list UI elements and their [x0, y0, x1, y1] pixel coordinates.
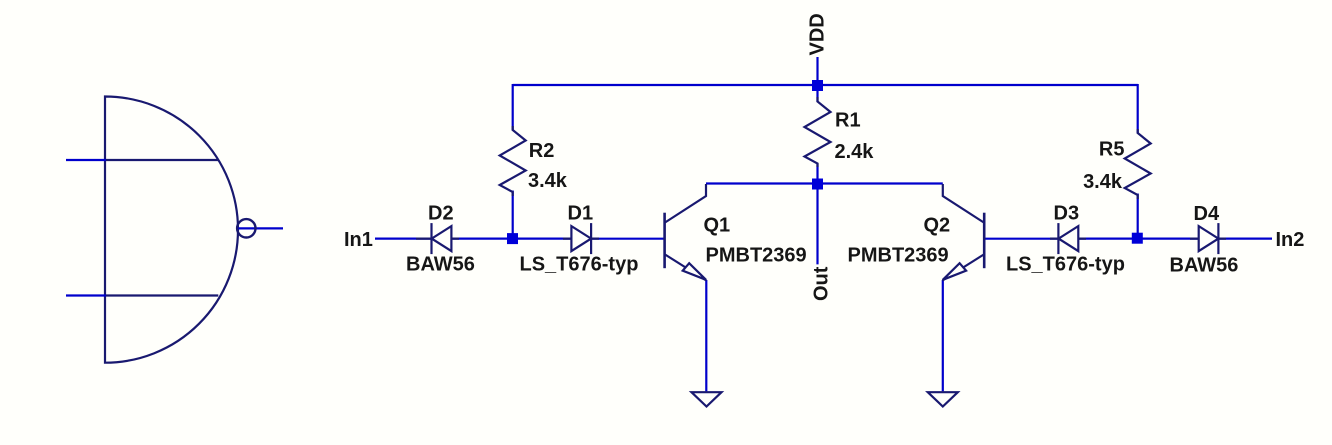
wire gate input 2	[66, 294, 106, 296]
svg-text:In1: In1	[344, 229, 373, 251]
svg-text:LS_T676-typ: LS_T676-typ	[1006, 254, 1125, 276]
svg-text:D2: D2	[428, 203, 454, 225]
ground (Q2 emitter)	[928, 392, 958, 406]
wire Out stub	[816, 184, 818, 264]
svg-text:D1: D1	[568, 203, 594, 225]
svg-text:R5: R5	[1099, 139, 1125, 161]
resistor R1	[805, 97, 831, 167]
svg-text:In2: In2	[1276, 229, 1305, 251]
wire D4 to In2	[1218, 238, 1272, 240]
diode D2	[416, 223, 459, 254]
svg-text:R2: R2	[529, 140, 555, 162]
svg-text:BAW56: BAW56	[406, 254, 475, 276]
svg-text:PMBT2369: PMBT2369	[848, 245, 949, 267]
wire rail to R5	[1137, 84, 1139, 134]
wire Q2 base to D3	[984, 238, 1058, 240]
svg-text:R1: R1	[835, 110, 861, 132]
wire D2 to node C to D1	[451, 238, 571, 240]
node C (R2/D2/D1 junction)	[507, 233, 518, 244]
svg-text:Out: Out	[811, 266, 833, 301]
wire In1 to D2	[375, 238, 432, 240]
NAND gate input line 2 (inside)	[105, 294, 218, 296]
svg-text:D4: D4	[1194, 203, 1220, 225]
diode D1	[563, 223, 599, 254]
NAND gate input line 1 (inside)	[105, 159, 218, 161]
svg-text:D3: D3	[1054, 203, 1080, 225]
resistor R2	[500, 126, 526, 196]
wire R5 to node D	[1137, 194, 1139, 239]
wire D3 to node D to D4	[1078, 238, 1198, 240]
svg-text:Q1: Q1	[704, 215, 731, 237]
svg-text:LS_T676-typ: LS_T676-typ	[520, 254, 639, 276]
svg-text:PMBT2369: PMBT2369	[706, 245, 807, 267]
wire node A to R1	[816, 86, 818, 103]
wire R2 to node C	[512, 191, 514, 239]
node B (Out junction)	[812, 179, 823, 190]
ground (Q1 emitter)	[692, 392, 722, 406]
NAND gate inversion bubble	[237, 219, 255, 237]
svg-text:3.4k: 3.4k	[1083, 171, 1123, 193]
wire rail to R2	[512, 84, 514, 131]
wire R1 to node B	[816, 164, 818, 185]
svg-text:3.4k: 3.4k	[528, 170, 568, 192]
wire gate input 1	[66, 159, 106, 161]
diode D4	[1190, 223, 1226, 254]
wire D1 to Q1 base	[591, 238, 665, 240]
svg-text:Q2: Q2	[924, 215, 951, 237]
diode D3	[1050, 223, 1086, 254]
svg-text:BAW56: BAW56	[1170, 255, 1239, 277]
wire collector rail	[706, 182, 943, 184]
wire Q1 emitter to ground	[705, 280, 707, 391]
node A (VDD junction)	[812, 80, 823, 91]
wire VDD stub	[816, 57, 818, 86]
node D (R5/D3/D4 junction)	[1132, 233, 1143, 244]
NAND gate U1 body	[105, 97, 238, 363]
wire top supply rail	[513, 84, 1138, 86]
wire Q2 emitter to ground	[942, 280, 944, 391]
svg-text:2.4k: 2.4k	[835, 141, 875, 163]
transistor Q1	[665, 184, 707, 281]
resistor R5	[1125, 129, 1151, 199]
svg-text:VDD: VDD	[807, 13, 829, 55]
wire gate output	[236, 227, 283, 229]
transistor Q2	[943, 184, 985, 281]
